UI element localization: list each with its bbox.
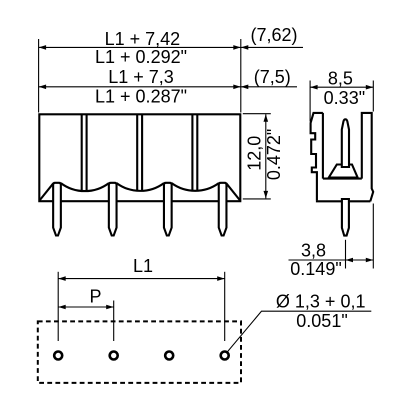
svg-text:L1 + 7,3: L1 + 7,3	[108, 67, 174, 87]
svg-text:P: P	[89, 287, 101, 307]
dimension tail (7,62)	[241, 46, 303, 48]
extension line left of front view	[38, 39, 40, 113]
scallop arc 2	[117, 183, 164, 191]
pin 2 front	[109, 183, 117, 236]
leader line to hole 4	[228, 311, 372, 352]
extension line 3.8 left (pin centre)	[345, 240, 347, 269]
extension line 12.0 bottom	[243, 198, 271, 200]
extension line hole4	[224, 272, 226, 341]
front view body outline	[39, 114, 240, 201]
separator wall 1	[81, 115, 83, 192]
svg-text:3,8: 3,8	[301, 241, 326, 261]
side view pin lower	[342, 199, 349, 236]
side view pin upper	[342, 119, 349, 167]
svg-text:(7,62): (7,62)	[250, 25, 297, 45]
separator wall 2	[136, 115, 138, 192]
side view body bottom	[316, 200, 371, 202]
bottom view dashed outline	[38, 321, 241, 383]
svg-text:12,0: 12,0	[244, 136, 264, 171]
side view right arm	[362, 113, 373, 201]
svg-text:0.051": 0.051"	[296, 311, 347, 331]
side view cavity floor	[323, 178, 362, 180]
svg-text:0.149": 0.149"	[290, 259, 341, 279]
dimension tail (7,5)	[241, 86, 297, 88]
pin 4 front	[219, 183, 227, 236]
side view left arm outer profile	[311, 113, 323, 200]
extension line right of front view	[240, 39, 242, 113]
svg-text:L1: L1	[133, 256, 153, 276]
scallop arc 1	[61, 183, 109, 191]
dimension line L1+7,3	[39, 86, 241, 88]
chamfer right	[226, 183, 240, 201]
pin 3 front	[164, 183, 172, 236]
side view left arm inner wall	[322, 113, 324, 179]
svg-text:L1 + 0.287": L1 + 0.287"	[95, 86, 187, 106]
hole 1	[54, 352, 62, 360]
hole 3	[165, 352, 173, 360]
scallop arc 3	[172, 183, 219, 191]
chamfer left	[39, 183, 53, 201]
dimension line L1+7,42	[39, 46, 241, 48]
separator wall 3	[191, 115, 193, 192]
extension line hole2	[113, 301, 115, 342]
extension line hole1	[57, 272, 59, 341]
svg-text:0.472": 0.472"	[264, 129, 284, 180]
svg-text:Ø 1,3 + 0,1: Ø 1,3 + 0,1	[276, 292, 366, 312]
extension line 12.0 top	[243, 113, 271, 115]
extension line 3.8 right	[372, 204, 374, 269]
svg-text:0.33": 0.33"	[324, 88, 365, 108]
dimension line 3.8	[289, 259, 374, 261]
extension line 8.5 right	[372, 81, 374, 112]
svg-text:L1 + 0.292": L1 + 0.292"	[95, 47, 187, 67]
hole 2	[110, 352, 118, 360]
svg-text:(7,5): (7,5)	[254, 67, 291, 87]
svg-text:L1 + 7,42: L1 + 7,42	[105, 29, 181, 49]
side view pedestal	[329, 165, 358, 178]
dimension line L1	[58, 278, 225, 280]
dimension line P	[58, 306, 113, 308]
hole 4	[221, 352, 229, 360]
svg-text:8,5: 8,5	[328, 69, 353, 89]
pin 1 front	[53, 183, 61, 236]
dimension line 12.0	[265, 114, 267, 198]
dimension line 8.5	[310, 86, 373, 88]
extension line 8.5 left	[309, 81, 311, 122]
